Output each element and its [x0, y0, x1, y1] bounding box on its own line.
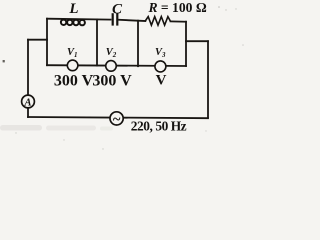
svg-text:R = 100 Ω: R = 100 Ω	[147, 0, 206, 15]
svg-text:300 V: 300 V	[92, 73, 132, 90]
svg-text:V: V	[156, 73, 167, 89]
wire bottom	[28, 117, 208, 118]
wire left stub	[28, 39, 47, 41]
ammeter A	[22, 95, 35, 108]
capacitor C	[113, 13, 118, 25]
voltmeter V2	[106, 61, 117, 72]
AC source	[110, 112, 123, 128]
scan speckles (decorative)	[3, 6, 244, 150]
wire junction vertical C-R	[137, 21, 139, 66]
wire outer left vertical upper	[27, 40, 29, 96]
wire top mid segment (C to R)	[119, 20, 145, 21]
voltmeter V1	[67, 60, 78, 71]
resistor R1 zigzag	[145, 17, 170, 26]
wire outer right vertical	[207, 41, 209, 117]
svg-text:300 V: 300 V	[54, 73, 94, 90]
svg-text:220, 50 Hz: 220, 50 Hz	[131, 119, 187, 134]
wire voltmeter branch	[47, 64, 186, 67]
svg-text:A: A	[23, 97, 31, 108]
inductor L	[61, 20, 85, 26]
wire top right segment (R to corner)	[171, 20, 187, 22]
wire box right vertical	[185, 22, 187, 66]
wire box left vertical	[46, 19, 48, 65]
wire top left segment	[47, 18, 111, 21]
svg-text:L: L	[68, 1, 78, 17]
wire outer left vertical lower	[27, 108, 29, 117]
wire right step horizontal	[186, 40, 208, 42]
svg-text:~: ~	[113, 112, 121, 128]
voltmeter V3	[155, 61, 166, 72]
wire junction vertical L-C	[96, 19, 98, 65]
svg-text:C: C	[112, 1, 123, 17]
